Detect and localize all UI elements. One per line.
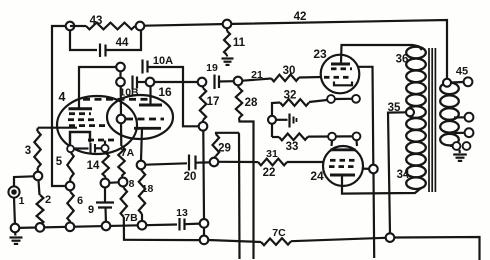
resistor 2 bbox=[39, 180, 40, 195]
svg-text:30: 30 bbox=[283, 65, 296, 77]
wire: cap 20 to node U bbox=[196, 161, 210, 164]
resistor 7B bbox=[122, 186, 125, 188]
node K (V16 cathode / R18 / coupling) bbox=[137, 161, 146, 170]
svg-text:11: 11 bbox=[233, 37, 246, 49]
node D (suppressor tap, top of R14) bbox=[101, 145, 108, 152]
heater pin b of V23 bbox=[352, 95, 360, 103]
svg-text:9: 9 bbox=[88, 204, 94, 216]
heater pin a of V23 bbox=[327, 95, 335, 103]
svg-text:14: 14 bbox=[87, 160, 100, 172]
svg-text:24: 24 bbox=[310, 169, 324, 183]
svg-text:20: 20 bbox=[184, 171, 197, 183]
svg-text:23: 23 bbox=[313, 47, 327, 61]
wire: R7B bottom through bus down to line 7C bbox=[124, 217, 200, 240]
wire: jack sleeve down to ground bus bbox=[14, 198, 15, 226]
svg-text:7B: 7B bbox=[124, 212, 138, 224]
svg-text:5: 5 bbox=[56, 156, 63, 168]
svg-text:3: 3 bbox=[25, 145, 31, 157]
terminal 45 bbox=[464, 77, 473, 86]
resistor 17 bbox=[202, 86, 204, 88]
node N (junction R3 / R2 / jack) bbox=[34, 172, 43, 181]
resistor 14 bbox=[104, 152, 107, 153]
wire: cap 44 left leg bbox=[70, 31, 97, 51]
node R14-bottom bbox=[101, 179, 110, 188]
resistor 7C bbox=[261, 238, 291, 245]
node C (R11 tap on line 42) bbox=[223, 20, 232, 29]
node Q (junction rail / R5 / R6) bbox=[66, 182, 75, 191]
svg-text:36: 36 bbox=[396, 54, 409, 66]
svg-text:21: 21 bbox=[251, 69, 263, 81]
wire: R28 bottom to heater lead (off-page) bbox=[239, 118, 254, 259]
ground bus wire bbox=[19, 225, 177, 228]
screen bypass capacitor (unlabeled) bbox=[288, 114, 290, 128]
primary tap node 35 bbox=[406, 108, 414, 116]
svg-text:4: 4 bbox=[59, 90, 66, 104]
node S (bus end) bbox=[200, 219, 209, 228]
wire: cap 10A to drop wire bbox=[148, 67, 184, 124]
wire: jack tip to node N bbox=[14, 176, 34, 186]
wire: plate of V23 up to primary top bbox=[341, 45, 413, 64]
svg-text:7A: 7A bbox=[121, 147, 135, 159]
svg-text:1: 1 bbox=[19, 195, 25, 207]
svg-text:8: 8 bbox=[129, 178, 135, 190]
cathode of V23 bbox=[334, 82, 352, 86]
V23 grid dashes bbox=[324, 76, 330, 79]
node V (screen bypass tap) bbox=[268, 116, 276, 124]
svg-text:31: 31 bbox=[266, 148, 278, 160]
wire: secondary top to terminal 45 bbox=[451, 81, 464, 84]
cathode cup of V4 bbox=[70, 132, 90, 145]
V4 internal dashes row1 bbox=[69, 112, 75, 115]
resistor 18 bbox=[141, 169, 142, 171]
secondary terminal t3 bbox=[453, 142, 461, 150]
svg-text:42: 42 bbox=[294, 11, 307, 23]
tube V16 envelope bbox=[107, 95, 173, 139]
wire: grid node G down to R7A bbox=[120, 123, 123, 146]
wire: node V down to R33 bbox=[271, 124, 273, 137]
plate bar of V23 bbox=[331, 63, 350, 66]
node A (left end of R43) bbox=[66, 22, 75, 31]
node M (junction R17 bottom / drop) bbox=[199, 122, 208, 131]
wire: node H to node J bbox=[154, 81, 197, 83]
wire: line 7C to right edge and off-page bbox=[394, 237, 479, 260]
node X (secondary top / line 42) bbox=[443, 79, 451, 87]
svg-text:17: 17 bbox=[207, 96, 220, 108]
wire: V16 cathode down to node K bbox=[141, 128, 142, 160]
svg-text:32: 32 bbox=[284, 90, 297, 102]
wire: R29 loop down heater lead (off-page) bbox=[238, 133, 241, 259]
svg-text:34: 34 bbox=[397, 169, 410, 181]
input jack J1 bbox=[8, 186, 19, 197]
bus node P3 bbox=[66, 223, 75, 232]
capacitor 9 bbox=[104, 187, 106, 202]
transformer primary winding 36/34 bbox=[406, 47, 426, 59]
resistor 5 bbox=[69, 178, 72, 182]
svg-text:22: 22 bbox=[263, 167, 276, 179]
wire: R32 to heater pin a bbox=[309, 100, 327, 102]
svg-text:6: 6 bbox=[77, 195, 83, 207]
V16 grid dashes bbox=[126, 118, 133, 121]
plate arch of V24 bbox=[331, 148, 356, 151]
transformer core bbox=[428, 48, 430, 192]
wire: heater pins link V23 bbox=[335, 98, 352, 100]
tube V24 envelope bbox=[323, 146, 363, 186]
resistor 32 bbox=[280, 99, 309, 106]
plate bar of V16 bbox=[139, 104, 162, 107]
wire: cap 44 right leg bbox=[106, 31, 142, 51]
svg-text:45: 45 bbox=[456, 66, 468, 78]
svg-text:16: 16 bbox=[158, 85, 172, 99]
svg-text:18: 18 bbox=[142, 183, 154, 195]
wire: cathode of V24 to primary bottom bbox=[342, 175, 421, 194]
wire: cathode pin to bypass cap bbox=[74, 147, 89, 149]
node U (junction cap20 / R29 / R22) bbox=[210, 158, 219, 167]
V24 grid dashes row2 bbox=[329, 165, 335, 168]
capacitor 10B bbox=[131, 76, 133, 90]
svg-text:10A: 10A bbox=[153, 55, 173, 67]
resistor 28 bbox=[237, 85, 240, 88]
cathode bar of V24 bbox=[330, 174, 355, 177]
wire: cap 10B to plate node H bbox=[137, 81, 146, 83]
wire: tap 35 to node Y bbox=[388, 112, 406, 233]
resistor 6 bbox=[69, 190, 72, 192]
tube V4 envelope bbox=[57, 96, 137, 154]
resistor 30 bbox=[271, 74, 299, 81]
svg-text:33: 33 bbox=[286, 141, 299, 153]
ground symbol at input bbox=[14, 232, 17, 235]
plate bar of V4 bbox=[69, 107, 93, 110]
wire: node V to cap bbox=[276, 119, 288, 121]
wire: node F down to grid node G bbox=[120, 86, 123, 114]
wire: node T to resistor 7C bbox=[208, 240, 261, 242]
wire: left vertical rail from node A down to cathode network bbox=[52, 26, 70, 186]
bus node P4 bbox=[102, 222, 111, 231]
resistor 33 bbox=[272, 136, 279, 138]
wire 42: B+ line from node B to transformer secondary top bbox=[145, 20, 448, 79]
V4 internal dashes row3 bbox=[69, 124, 75, 127]
wire: grid of V4 to resistor 3 bbox=[38, 127, 77, 129]
wire: plate lead of V16 bbox=[149, 86, 151, 104]
cathode bypass capacitor (unlabeled) bbox=[89, 143, 91, 154]
V24 grid dashes row1 bbox=[330, 159, 336, 162]
wire: node S down to node T bbox=[203, 228, 205, 236]
tube V23 envelope bbox=[321, 55, 360, 94]
resistor 3 bbox=[37, 128, 38, 131]
wire: R32 left leg down bbox=[272, 103, 280, 116]
node E (V4 plate / cap 10A junction) bbox=[116, 63, 125, 72]
bus node P5 bbox=[138, 221, 147, 230]
node H (plate of V16) bbox=[146, 78, 155, 87]
cathode bar of V16 bbox=[134, 127, 161, 130]
wire: screen of V24 to screen rail node W bbox=[363, 168, 369, 170]
V4/V16 long grid dashed line bbox=[83, 98, 90, 101]
node F (cap 10B left) bbox=[116, 78, 125, 87]
wire: R30 to grid of V23 bbox=[299, 76, 322, 79]
V4 internal dashes row2 bbox=[68, 118, 74, 121]
svg-text:44: 44 bbox=[116, 37, 129, 49]
wire: cap 19 to node L bbox=[219, 80, 234, 83]
wire: node M down to ground bus node S bbox=[202, 131, 205, 219]
resistor 43 bbox=[70, 25, 86, 27]
wire: vertical from cap 10A drop to node M bbox=[183, 124, 199, 126]
wire 21 bbox=[242, 79, 271, 81]
heater pin b of V24 bbox=[353, 132, 361, 140]
secondary terminal t2 bbox=[465, 128, 474, 137]
wire: node to node bbox=[109, 181, 118, 184]
wire: R33 to V24 heater pins bbox=[308, 135, 353, 137]
wire: plate of V4 up to coupling node bbox=[79, 67, 120, 109]
svg-text:43: 43 bbox=[90, 15, 103, 27]
ground bus node P1 bbox=[11, 224, 20, 233]
wire: node E to node F bbox=[119, 71, 121, 77]
secondary terminal t1 bbox=[465, 113, 474, 122]
node L (junction cap19 / R28 / grid line 21) bbox=[234, 77, 243, 86]
V23 screen dashes bbox=[331, 67, 337, 70]
resistor 7A bbox=[118, 146, 124, 176]
wire: screen of V23 to screen rail bbox=[357, 67, 373, 165]
wire: cap 13 to node S bbox=[185, 223, 200, 226]
wire: heater pin stub a V24 bbox=[330, 141, 333, 147]
node J (top of R17 / cap 19) bbox=[198, 78, 207, 87]
wire: screen rail off-page bbox=[372, 173, 375, 258]
svg-text:7C: 7C bbox=[272, 227, 286, 239]
wire: secondary tap 2 to terminal bbox=[454, 132, 464, 134]
wire: heater pin stub b V24 bbox=[355, 140, 358, 146]
secondary terminal t4 bbox=[463, 142, 471, 150]
V4 internal dashes row4 bbox=[88, 139, 94, 142]
resistor 11 bbox=[226, 28, 228, 31]
capacitor 20 bbox=[188, 155, 190, 171]
wire: secondary bottom leg bbox=[450, 145, 452, 147]
node G (grid of V16) bbox=[117, 115, 126, 124]
bus node P2 bbox=[36, 223, 45, 232]
ground below resistor 11 bbox=[222, 57, 234, 59]
cathode pin of V4 bbox=[67, 145, 74, 152]
svg-text:10B: 10B bbox=[119, 87, 139, 99]
resistor 31/22 bbox=[218, 161, 258, 163]
node Y (junction 35 tap lead / line 7C) bbox=[386, 233, 395, 242]
transformer secondary winding 45 bbox=[440, 83, 459, 95]
node B (right end of R43, start of line 42) bbox=[136, 22, 145, 31]
svg-text:19: 19 bbox=[206, 62, 218, 74]
wire: secondary tap 1 to terminal bbox=[454, 116, 464, 118]
wire: node K to cap 20 bbox=[145, 163, 187, 164]
capacitor 19 bbox=[213, 75, 215, 90]
svg-text:2: 2 bbox=[45, 194, 51, 206]
node R7A-bottom (tap 8) bbox=[119, 178, 128, 187]
ground below secondary bbox=[458, 150, 460, 153]
svg-text:29: 29 bbox=[218, 143, 231, 155]
svg-text:28: 28 bbox=[245, 97, 258, 109]
resistor 29 bbox=[214, 156, 217, 158]
capacitor 13 bbox=[178, 218, 180, 231]
svg-text:13: 13 bbox=[176, 207, 188, 219]
node T (start of line 7C) bbox=[200, 236, 209, 245]
wire: R7C to node Y bbox=[291, 238, 386, 241]
wire: bypass cap to node D bbox=[95, 147, 101, 149]
node W (screen rail junction) bbox=[369, 165, 378, 174]
capacitor 44 bbox=[99, 44, 101, 58]
heater pin a of V24 bbox=[328, 133, 336, 141]
capacitor 10A bbox=[141, 60, 143, 74]
